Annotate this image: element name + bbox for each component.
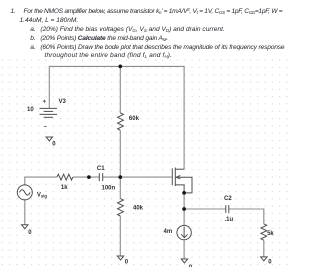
label 10 [27, 107, 34, 113]
problem statement text [11, 8, 17, 15]
label 4m [164, 229, 173, 235]
wire 40k bottom lead [119, 216, 121, 256]
svg-text:60k: 60k [129, 116, 140, 122]
ground below 40k [117, 256, 123, 260]
node top junction (Vdd rail) [118, 65, 122, 69]
wire 5k bottom lead [263, 240, 265, 256]
label 100n [102, 186, 116, 192]
svg-text:V3: V3 [59, 99, 67, 105]
voltage source V3 battery [40, 100, 58, 127]
label 5k [267, 231, 274, 237]
capacitor C2 [226, 205, 229, 213]
wire 60k bottom lead [119, 130, 121, 177]
ground below V3 [46, 137, 52, 141]
svg-text:5k: 5k [267, 231, 274, 237]
node output junction [182, 207, 186, 211]
svg-text:4m: 4m [164, 229, 173, 235]
label 0 (V3 ground) [52, 141, 56, 147]
svg-text:.1u: .1u [225, 217, 234, 223]
svg-text:C2: C2 [224, 196, 232, 202]
wire 40k top lead [119, 177, 121, 199]
wire 1k to C1 [73, 176, 100, 178]
svg-text:Vsig: Vsig [37, 193, 48, 199]
wire 60k top lead [119, 66, 121, 113]
ground below current source [181, 259, 187, 263]
resistor 40k [118, 199, 124, 216]
wire top rail [49, 66, 184, 169]
wire output node to C2 [184, 208, 226, 210]
svg-text:1k: 1k [61, 185, 68, 191]
label 0 (current source ground) [189, 265, 193, 267]
svg-text:40k: 40k [133, 206, 144, 212]
current source 4m [177, 225, 191, 239]
transistor M1 nmos [172, 168, 192, 193]
label 0 (Vsig ground) [28, 230, 32, 236]
ground below Vsig [22, 225, 28, 229]
node source junction [182, 191, 186, 195]
label 0 (40k ground) [125, 259, 129, 265]
signal source Vsig [17, 185, 32, 200]
wire C2 to 5k [229, 209, 264, 224]
label C2 [224, 196, 232, 202]
node gate junction [118, 175, 122, 179]
resistor 60k [118, 113, 124, 130]
label 0 (5k ground) [268, 259, 272, 265]
wire signal source bottom lead [24, 200, 26, 225]
svg-text:C1: C1 [97, 166, 105, 172]
svg-text:10: 10 [27, 107, 34, 113]
wire gate node to transistor [120, 176, 172, 178]
label Vsig [37, 193, 48, 199]
wire source node down [183, 193, 185, 226]
label C1 [97, 166, 105, 172]
label 60k [129, 116, 140, 122]
resistor 5k [261, 224, 267, 240]
resistor 1k [57, 174, 73, 180]
label .1u [225, 217, 234, 223]
ground below 5k [261, 257, 267, 261]
label 40k [133, 206, 144, 212]
wire current source bottom lead [183, 240, 185, 259]
wire C1 to gate node [103, 176, 121, 178]
svg-text:100n: 100n [102, 186, 116, 192]
label V3 [59, 99, 67, 105]
node junction after 1k [87, 175, 91, 179]
capacitor C1 [99, 173, 102, 181]
wire signal source top lead [25, 177, 57, 185]
label 1k [61, 185, 68, 191]
